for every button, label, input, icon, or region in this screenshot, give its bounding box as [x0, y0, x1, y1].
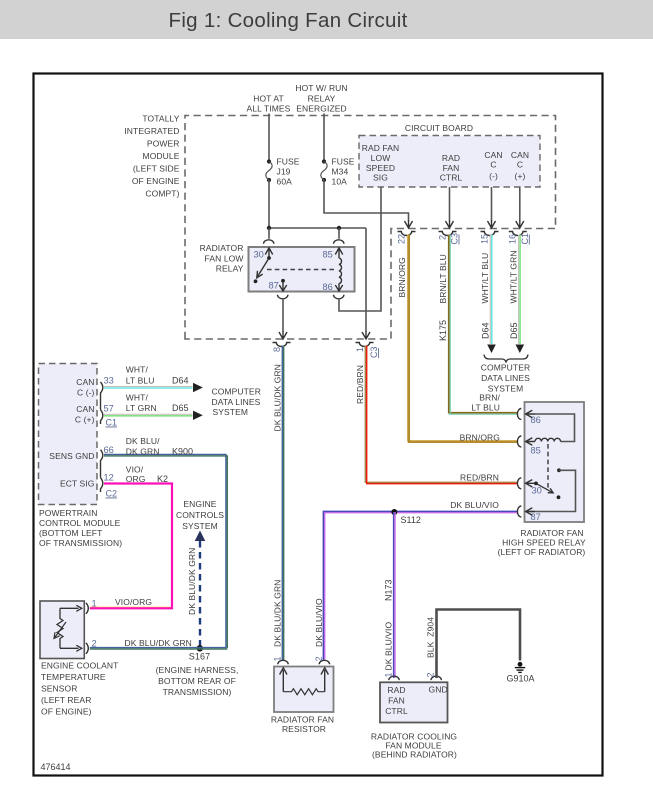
pin 30 arc: [517, 478, 521, 489]
pin 30 arc: [264, 240, 274, 244]
pin 86 arrow: [526, 410, 535, 417]
svg-text:CTRL: CTRL: [385, 706, 408, 716]
splice S112: [391, 509, 397, 515]
sensor pin 2 arc: [86, 643, 88, 654]
svg-text:86: 86: [323, 282, 333, 292]
svg-text:FAN: FAN: [388, 696, 405, 706]
svg-text:WHT/LT BLU: WHT/LT BLU: [480, 253, 490, 304]
svg-text:SPEED: SPEED: [366, 163, 395, 173]
svg-text:S167: S167: [189, 652, 210, 662]
svg-text:BLK Z904: BLK Z904: [426, 617, 436, 658]
splice S167: [197, 645, 203, 651]
wire hot-w-run feed: [323, 114, 325, 161]
internal wire 86 to coil: [530, 414, 575, 442]
svg-text:VIO/ORG: VIO/ORG: [115, 597, 152, 607]
pin 87 arrow down: [279, 282, 286, 291]
svg-text:RAD: RAD: [442, 153, 460, 163]
module RADIATOR COOLING FAN MODULE box: [380, 682, 448, 722]
svg-text:N173: N173: [383, 579, 393, 601]
svg-text:FUSE: FUSE: [277, 157, 300, 167]
pin 85 arc: [334, 240, 344, 244]
svg-text:D64: D64: [481, 322, 491, 339]
svg-text:DK BLU/DK GRN: DK BLU/DK GRN: [272, 580, 282, 647]
svg-text:CAN: CAN: [484, 150, 502, 160]
svg-text:D65: D65: [509, 322, 519, 339]
svg-text:FAN LOW: FAN LOW: [205, 254, 244, 264]
svg-text:COMPUTER: COMPUTER: [212, 387, 261, 397]
svg-text:C1: C1: [106, 418, 118, 428]
svg-text:HOT AT: HOT AT: [253, 94, 284, 104]
wire DK BLU/DK GRN pin 8 to resistor: [281, 346, 283, 662]
wire WHT/LT GRN D65 from pin 57: [104, 413, 193, 415]
wire WHT/LT BLU D64 from pin 33: [104, 386, 193, 388]
pin 87 arrow: [526, 508, 535, 515]
svg-text:DATA LINES: DATA LINES: [481, 373, 530, 383]
PCM pin 12: [101, 478, 103, 492]
svg-text:ORG: ORG: [126, 474, 146, 484]
PCM label: [39, 508, 122, 548]
connector pin 15: [481, 232, 499, 236]
svg-text:OF ENGINE): OF ENGINE): [41, 707, 92, 717]
svg-text:RESISTOR: RESISTOR: [282, 724, 326, 734]
internal contact node to pin 87: [557, 468, 561, 472]
svg-text:30: 30: [532, 486, 542, 496]
connector pin 1 C3: [356, 343, 374, 347]
svg-text:COMPUTER: COMPUTER: [481, 363, 530, 373]
svg-text:57: 57: [104, 404, 114, 414]
svg-text:CIRCUIT BOARD: CIRCUIT BOARD: [405, 123, 473, 133]
svg-text:TOTALLY: TOTALLY: [142, 114, 179, 124]
relay actuating dashed link: [267, 269, 334, 271]
svg-text:12: 12: [104, 473, 114, 483]
svg-text:RELAY: RELAY: [216, 264, 244, 274]
svg-text:15: 15: [479, 234, 489, 244]
svg-text:CAN: CAN: [76, 377, 94, 387]
svg-text:(-): (-): [489, 171, 498, 181]
svg-text:87: 87: [269, 281, 279, 291]
relay switch: [534, 482, 538, 486]
svg-text:16: 16: [508, 234, 518, 244]
pin 87 arc: [278, 295, 288, 299]
svg-text:85: 85: [531, 446, 541, 456]
svg-text:(ENGINE HARNESS,: (ENGINE HARNESS,: [156, 665, 239, 675]
svg-text:8: 8: [272, 347, 282, 352]
svg-text:2: 2: [426, 672, 436, 677]
svg-text:87: 87: [531, 512, 541, 522]
pin 30 arrow up: [265, 248, 272, 258]
node COMPUTER DATA LINES SYSTEM (left): [212, 387, 261, 418]
pin 86 arrow down: [335, 284, 342, 292]
svg-text:CAN: CAN: [511, 150, 529, 160]
node HOT W/ RUN RELAY ENERGIZED: [295, 83, 347, 114]
sensor pin 1 arc: [86, 603, 88, 614]
svg-text:TEMPERATURE: TEMPERATURE: [41, 672, 106, 682]
pin 30 arrow: [526, 480, 535, 487]
svg-text:C3: C3: [369, 346, 379, 358]
relay coil: [339, 258, 341, 284]
svg-text:ENGINE COOLANT: ENGINE COOLANT: [41, 661, 118, 671]
svg-text:MODULE: MODULE: [143, 151, 180, 161]
connector pin 22: [398, 232, 416, 236]
wire SIG to relay pin 86: [339, 187, 381, 311]
node ENGINE CONTROLS SYSTEM: [176, 499, 224, 531]
wire N173 DK BLU/VIO S112 to fan module: [393, 512, 395, 678]
svg-text:BOTTOM REAR OF: BOTTOM REAR OF: [158, 676, 236, 686]
svg-text:DK BLU/VIO: DK BLU/VIO: [383, 622, 393, 671]
svg-text:DK BLU/DK GRN: DK BLU/DK GRN: [125, 638, 192, 648]
wire DK BLU/VIO resistor to S112 to high speed relay 87: [323, 511, 517, 661]
node HOT AT ALL TIMES: [247, 94, 291, 114]
dashed wire DK BLU/DK GRN to engine controls: [199, 541, 201, 648]
svg-text:LT BLU: LT BLU: [471, 403, 500, 413]
svg-text:DK GRN: DK GRN: [126, 447, 160, 457]
svg-text:RED/BRN: RED/BRN: [355, 365, 365, 404]
wire fuse M34 to TIPM connector pin 22: [324, 180, 409, 221]
svg-text:POWER: POWER: [147, 139, 180, 149]
wire WHT/LT GRN D65 pin 16: [518, 235, 520, 345]
svg-text:DATA LINES: DATA LINES: [212, 397, 261, 407]
svg-text:(LEFT OF RADIATOR): (LEFT OF RADIATOR): [498, 547, 586, 557]
wire BLK Z904 module to ground: [437, 610, 521, 679]
svg-text:ALL TIMES: ALL TIMES: [247, 104, 291, 114]
svg-text:WHT/LT GRN: WHT/LT GRN: [508, 250, 518, 303]
wire CAN C(+) to pin 16: [519, 187, 521, 221]
svg-text:C (+): C (+): [75, 415, 95, 425]
svg-text:WHT/: WHT/: [126, 365, 149, 375]
wire relay 87 to TIPM connector pin 8: [282, 299, 284, 332]
wire VIO/ORG K2 from pin 12: [90, 606, 172, 608]
svg-text:DK BLU/VIO: DK BLU/VIO: [314, 598, 324, 647]
wire RED/BRN pin 1 C3 to high speed relay 30: [365, 346, 517, 483]
svg-text:BRN/: BRN/: [479, 393, 500, 403]
svg-text:SYSTEM: SYSTEM: [182, 521, 218, 531]
svg-text:K175: K175: [438, 320, 448, 341]
svg-text:K900: K900: [172, 447, 193, 457]
wire bus to connector pin 1 C3: [365, 228, 367, 332]
TIPM label: [124, 114, 179, 199]
svg-text:DK BLU/VIO: DK BLU/VIO: [450, 500, 499, 510]
svg-text:GND: GND: [429, 685, 448, 695]
module pin 1 arc: [389, 676, 399, 680]
svg-text:TRANSMISSION): TRANSMISSION): [163, 687, 232, 697]
resistor element: [283, 689, 324, 695]
wire hot-at-all-times feed: [268, 114, 270, 161]
svg-text:RAD FAN: RAD FAN: [362, 143, 400, 153]
connector pin 2 C3: [439, 232, 457, 236]
svg-text:60A: 60A: [277, 177, 293, 187]
engine controls arrow up: [195, 531, 206, 542]
svg-text:C3: C3: [450, 233, 460, 245]
wire bus to relay pin 85: [338, 228, 340, 239]
svg-text:C: C: [490, 160, 496, 170]
fuse J19 60A: [267, 159, 271, 163]
relay coil (horizontal): [535, 438, 561, 441]
svg-text:2: 2: [92, 639, 97, 649]
svg-text:CAN: CAN: [76, 404, 94, 414]
svg-text:C: C: [517, 160, 523, 170]
svg-text:G910A: G910A: [507, 674, 535, 684]
svg-text:SYSTEM: SYSTEM: [213, 407, 249, 417]
wire RAD FAN CTRL to pin 2 C3: [449, 187, 451, 221]
svg-text:476414: 476414: [41, 762, 71, 772]
svg-text:COMPT): COMPT): [145, 189, 179, 199]
svg-text:K2: K2: [157, 474, 168, 484]
sensor internal wire pin 2: [60, 645, 82, 651]
fuse M34 10A: [322, 159, 326, 163]
pin 85 arrow up: [335, 248, 342, 258]
svg-text:D64: D64: [172, 376, 189, 386]
svg-text:30: 30: [254, 250, 264, 260]
svg-text:SENS GND: SENS GND: [49, 451, 94, 461]
PCM dashed box: [39, 364, 98, 505]
relay switch: [267, 256, 271, 260]
pin 85 arrow: [526, 438, 535, 445]
svg-text:BRN/ORG: BRN/ORG: [460, 433, 500, 443]
bus from fuse J19: [269, 227, 366, 229]
svg-text:(BEHIND RADIATOR): (BEHIND RADIATOR): [372, 750, 457, 760]
pin 86 arc: [517, 409, 521, 420]
ground G910A: [518, 662, 523, 667]
svg-text:CONTROL MODULE: CONTROL MODULE: [39, 518, 121, 528]
PCM pin 57: [101, 410, 103, 424]
svg-text:1: 1: [383, 672, 393, 677]
resistor pin 1 arc: [278, 660, 288, 664]
relay actuating dashed link: [547, 444, 549, 488]
svg-text:C1: C1: [520, 233, 530, 245]
svg-text:86: 86: [531, 415, 541, 425]
svg-text:HOT W/ RUN: HOT W/ RUN: [295, 83, 347, 93]
wire CAN C(-) to pin 15: [491, 187, 493, 221]
connector pin 8: [273, 343, 291, 347]
svg-text:OF TRANSMISSION): OF TRANSMISSION): [39, 538, 122, 548]
svg-text:33: 33: [104, 376, 114, 386]
svg-text:C (-): C (-): [77, 388, 95, 398]
svg-text:(LEFT SIDE: (LEFT SIDE: [133, 164, 180, 174]
wire WHT/LT BLU D64 pin 15: [489, 235, 491, 345]
pin 85 arc: [517, 436, 521, 447]
PCM pin 66: [101, 450, 103, 478]
TIPM dashed outline: [185, 116, 556, 340]
wire DK BLU/DK GRN ECT to S167 to K900: [90, 647, 226, 649]
svg-text:BRN/ORG: BRN/ORG: [397, 257, 407, 297]
svg-text:DK BLU/DK GRN: DK BLU/DK GRN: [187, 548, 197, 615]
resistor RADIATOR FAN RESISTOR box: [274, 667, 334, 713]
svg-text:85: 85: [323, 250, 333, 260]
svg-text:SENSOR: SENSOR: [41, 684, 78, 694]
module pin 2 arc: [431, 676, 441, 680]
svg-text:D65: D65: [172, 403, 189, 413]
node for pin 87: [281, 279, 285, 283]
svg-text:Fig 1: Cooling Fan Circuit: Fig 1: Cooling Fan Circuit: [169, 9, 408, 32]
svg-text:S112: S112: [401, 515, 421, 525]
svg-text:CTRL: CTRL: [440, 173, 463, 183]
wire DK BLU/DK GRN K900 from pin 66: [104, 455, 226, 649]
pin 86 arc: [334, 295, 344, 299]
pin 87 arc: [517, 506, 521, 517]
svg-text:M34: M34: [332, 167, 349, 177]
svg-text:RED/BRN: RED/BRN: [460, 473, 499, 483]
resistor pin 2 arc: [319, 660, 329, 664]
svg-text:RADIATOR FAN: RADIATOR FAN: [520, 528, 583, 538]
svg-text:2: 2: [314, 656, 324, 661]
svg-text:ECT SIG: ECT SIG: [60, 479, 95, 489]
svg-text:2: 2: [437, 235, 447, 240]
svg-text:1: 1: [355, 347, 365, 352]
svg-text:DK BLU/: DK BLU/: [126, 436, 160, 446]
svg-text:DK BLU/DK GRN: DK BLU/DK GRN: [272, 364, 282, 431]
svg-text:WHT/: WHT/: [126, 393, 149, 403]
svg-text:LT GRN: LT GRN: [126, 403, 157, 413]
svg-text:RELAY: RELAY: [308, 94, 336, 104]
svg-text:66: 66: [104, 445, 114, 455]
svg-text:RADIATOR FAN: RADIATOR FAN: [271, 715, 334, 725]
sensor internal wire pin 1: [60, 605, 82, 611]
relay RADIATOR FAN LOW RELAY box: [249, 247, 355, 292]
main border frame: [34, 74, 603, 776]
wire bus to relay pin 30: [268, 228, 270, 239]
svg-text:FUSE: FUSE: [332, 157, 355, 167]
brace to computer data lines: [484, 355, 528, 363]
svg-text:SIG: SIG: [373, 173, 388, 183]
svg-text:SYSTEM: SYSTEM: [488, 384, 524, 394]
wire fuse J19 to bus: [268, 180, 270, 228]
svg-text:1: 1: [92, 599, 97, 609]
svg-text:22: 22: [396, 234, 406, 244]
svg-text:BRN/LT BLU: BRN/LT BLU: [438, 254, 448, 303]
svg-text:CONTROLS: CONTROLS: [176, 510, 224, 520]
svg-text:RADIATOR: RADIATOR: [200, 243, 244, 253]
wire BRN/LT BLU K175 pin 2 to high speed relay 86: [449, 235, 517, 413]
svg-text:(+): (+): [515, 171, 526, 181]
svg-text:RAD: RAD: [387, 685, 405, 695]
svg-text:(LEFT REAR: (LEFT REAR: [41, 695, 91, 705]
header bar: [0, 0, 653, 39]
svg-text:(BOTTOM LEFT: (BOTTOM LEFT: [39, 528, 102, 538]
svg-text:ENGINE: ENGINE: [183, 499, 216, 509]
svg-text:OF ENGINE: OF ENGINE: [132, 176, 180, 186]
resistor internal arrows: [280, 668, 287, 692]
node COMPUTER DATA LINES SYSTEM (right): [481, 363, 530, 394]
circuit board dashed box: [359, 136, 540, 188]
sensor ENGINE COOLANT TEMPERATURE SENSOR box: [40, 601, 84, 659]
svg-text:INTEGRATED: INTEGRATED: [124, 126, 179, 136]
svg-text:LT BLU: LT BLU: [126, 376, 155, 386]
svg-text:FAN: FAN: [443, 163, 460, 173]
svg-text:C2: C2: [106, 489, 118, 499]
connector pin 16 C1: [509, 232, 527, 236]
svg-text:ENERGIZED: ENERGIZED: [296, 104, 347, 114]
thermistor symbol: [57, 608, 63, 648]
svg-text:POWERTRAIN: POWERTRAIN: [39, 508, 97, 518]
svg-text:10A: 10A: [332, 177, 348, 187]
svg-text:LOW: LOW: [371, 153, 391, 163]
wire BRN/ORG pin 22 to high speed relay 85: [408, 235, 517, 441]
svg-text:HIGH SPEED RELAY: HIGH SPEED RELAY: [502, 538, 586, 548]
svg-text:VIO/: VIO/: [126, 465, 144, 475]
svg-text:J19: J19: [277, 167, 291, 177]
PCM pin 33: [101, 382, 103, 410]
svg-text:1: 1: [273, 656, 283, 661]
relay RADIATOR FAN HIGH SPEED RELAY box: [525, 402, 585, 522]
